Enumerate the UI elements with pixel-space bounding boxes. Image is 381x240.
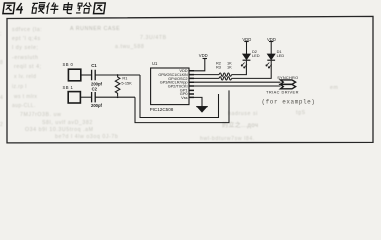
wire: VDD to D1 anode (270, 42, 272, 55)
硬 (31, 3, 38, 13)
pushbutton SB1 (63, 85, 81, 103)
resistor R2 (216, 61, 232, 77)
svg-text:(for example): (for example) (262, 99, 316, 106)
wire: R3 to LED D1 (232, 61, 272, 79)
svg-text:VDD: VDD (242, 37, 251, 42)
wire SB1 to C2 (80, 96, 91, 98)
svg-text:200pf: 200pf (91, 103, 103, 108)
resistor R1 (115, 75, 132, 96)
wire C1 to node A (95, 74, 140, 76)
wire: GP5 pin to R2 (189, 74, 219, 76)
power VDD symbol 3 (267, 37, 276, 42)
svg-text:1K: 1K (227, 64, 232, 69)
resistor R3 (216, 64, 232, 80)
capacitor C1 (91, 63, 103, 86)
wire: Vss pin to ground (189, 97, 202, 107)
图 (3, 3, 15, 14)
pushbutton SB0 (63, 62, 81, 81)
title 图4 硬件电路图 (bold italic, hand-approximated glyphs) (3, 2, 106, 14)
wire SB0 to C1 (81, 74, 92, 76)
LED D2 (241, 49, 260, 68)
schematic frame (border) (7, 16, 373, 142)
svg-text:PIC12C508: PIC12C508 (150, 107, 174, 112)
wire: GP2 pin to TRIAC DRIVER tag (189, 85, 281, 87)
IC U1 PIC12C508 (150, 61, 194, 112)
connector tag SYNCHRO (277, 75, 298, 84)
svg-text:LED: LED (252, 53, 260, 58)
4 (16, 3, 24, 14)
connector tag TRIAC DRIVER (266, 84, 299, 94)
svg-text:R3: R3 (216, 64, 221, 69)
ground (196, 107, 208, 113)
wire: VDD to D2 anode (246, 42, 248, 55)
wire: GP4 pin to R3 (189, 77, 219, 79)
wire: VDD pin to VDD rail (189, 59, 205, 71)
wire: GP3 pin to SYNCHRO tag (189, 81, 281, 83)
svg-text:5-15K: 5-15K (121, 80, 132, 85)
LED D1 (266, 49, 284, 68)
图 (2nd) (93, 3, 105, 14)
svg-text:TRIAC DRIVER: TRIAC DRIVER (266, 90, 299, 95)
node B (junction of C2, R1 bottom) (117, 96, 119, 98)
svg-text:C1: C1 (91, 63, 97, 68)
svg-text:VDD: VDD (199, 53, 208, 58)
wire: R2 to LED D2 (232, 61, 247, 75)
svg-text:SYNCHRO: SYNCHRO (277, 75, 298, 80)
power VDD symbol 2 (242, 37, 251, 42)
wire: node B loop down-right up to GP1 (135, 90, 229, 122)
wire C2 to node B (95, 96, 135, 98)
svg-text:SB 1: SB 1 (63, 85, 74, 90)
svg-text:VDD: VDD (267, 37, 276, 42)
svg-text:U1: U1 (152, 61, 158, 66)
capacitor C2 (91, 86, 103, 108)
路 (76, 3, 82, 13)
电 (63, 2, 73, 13)
svg-text:LED: LED (277, 53, 285, 58)
svg-text:SB 0: SB 0 (63, 62, 74, 67)
件 (46, 2, 60, 14)
svg-text:V​ss: V​ss (181, 95, 188, 100)
node A (junction of C1, R1 top) (117, 74, 119, 76)
pin stubs (189, 71, 194, 98)
faint bleed-through rows (texture) (12, 27, 42, 33)
wire: node A loop down-right up to GP0 (140, 75, 219, 118)
svg-text:C2: C2 (92, 86, 98, 91)
power VDD symbol 1 (199, 53, 208, 58)
